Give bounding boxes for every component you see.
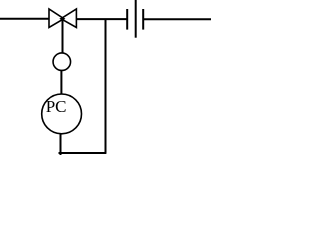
wire left supply line [0, 18, 49, 20]
battery center tall plate [135, 0, 137, 38]
wire valve stem down [62, 19, 64, 54]
wire right output line [143, 18, 211, 20]
controller PC circle [42, 94, 82, 134]
battery right plate [142, 9, 144, 30]
svg-text:PC: PC [46, 97, 67, 116]
wire controller down [60, 134, 62, 155]
valve V1 right triangle [61, 9, 77, 28]
wire valve to battery [76, 18, 127, 20]
wire right feedback riser [105, 19, 107, 153]
valve V1 left triangle [49, 9, 64, 28]
battery left plate [126, 9, 128, 30]
wire bottom feedback [59, 152, 107, 154]
instrument bubble small circle [53, 53, 71, 70]
wire small circle to controller [60, 70, 62, 94]
